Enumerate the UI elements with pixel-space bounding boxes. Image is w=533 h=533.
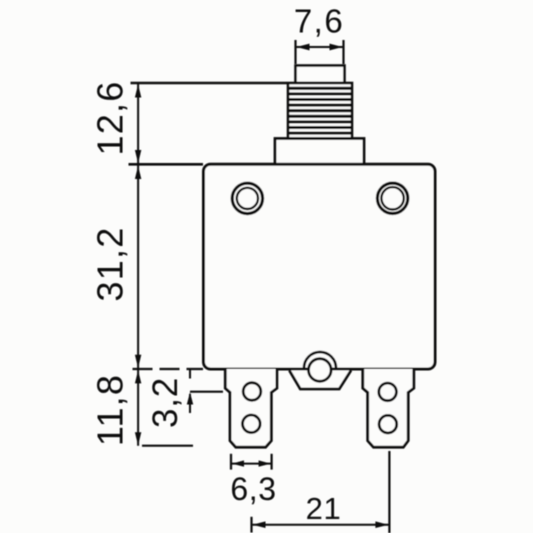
left terminal blade xyxy=(225,369,277,447)
dim 11,8 arrow down xyxy=(135,432,141,445)
left mounting hole inner xyxy=(237,188,258,209)
dim 6,3 tick right xyxy=(271,454,273,470)
dim 11,8 extension line bottom xyxy=(142,445,193,447)
svg-text:6,3: 6,3 xyxy=(230,471,276,507)
thread ribs xyxy=(289,88,352,133)
threaded shaft outline xyxy=(288,83,352,139)
button cap xyxy=(296,66,345,84)
dim 31,2 arrow down xyxy=(135,355,141,368)
dim 12,6 extension line bottom (body top extension) xyxy=(129,163,204,166)
dim 21 arrow right xyxy=(375,521,388,528)
dim 7,6 line xyxy=(296,46,344,48)
centre lug dome xyxy=(304,352,336,368)
dim 3,2 arrow up with tail xyxy=(189,394,191,413)
svg-text:31,2: 31,2 xyxy=(90,227,131,302)
left terminal hole upper xyxy=(243,383,261,401)
dim 12,6 arrow up xyxy=(135,84,141,97)
dim 11,8 line xyxy=(137,370,139,446)
right terminal hole upper xyxy=(379,383,397,401)
left terminal hole lower xyxy=(243,415,261,433)
centre lug skirt trapezoid xyxy=(289,370,351,389)
right terminal hole lower xyxy=(379,415,397,433)
right mounting hole outer xyxy=(377,183,407,213)
right mounting hole inner xyxy=(381,187,403,209)
dim 11,8 arrow up xyxy=(135,370,141,383)
dim 12,6 extension line top xyxy=(131,82,288,84)
dim 21 tick left xyxy=(250,517,252,533)
svg-text:21: 21 xyxy=(306,491,342,526)
dim 6,3 arrow right xyxy=(259,460,271,466)
dim 12,6 line xyxy=(137,84,139,164)
dim 6,3 tick left xyxy=(230,454,232,470)
hex nut base xyxy=(275,139,364,165)
dim 3,2 extension line xyxy=(190,391,223,393)
dim 7,6 arrow right xyxy=(330,44,343,51)
dim 7,6 extension line right xyxy=(342,40,344,64)
dim 21 line xyxy=(252,524,390,526)
dim 7,6 arrow left xyxy=(297,44,310,51)
dim 31,2 arrow up xyxy=(135,166,141,179)
breaker body xyxy=(204,164,436,369)
dim 6,3 arrow left xyxy=(232,460,244,466)
svg-text:3,2: 3,2 xyxy=(146,377,185,428)
dim 21 arrow left xyxy=(253,521,266,528)
dim 7,6 extension line left xyxy=(294,40,296,64)
svg-text:11,8: 11,8 xyxy=(90,374,131,446)
dim 6,3 line xyxy=(231,463,272,465)
dim 3,2 upper tick xyxy=(189,370,191,379)
svg-text:12,6: 12,6 xyxy=(90,81,131,156)
body bottom extension line dash-dot xyxy=(133,368,204,370)
dim 21 extension line right xyxy=(388,451,390,533)
dim 12,6 arrow down xyxy=(135,150,141,163)
right terminal blade xyxy=(363,369,414,447)
dim 31,2 line xyxy=(137,166,139,369)
left mounting hole outer xyxy=(232,183,262,213)
svg-text:7,6: 7,6 xyxy=(294,2,344,39)
centre lug hole xyxy=(309,359,332,382)
